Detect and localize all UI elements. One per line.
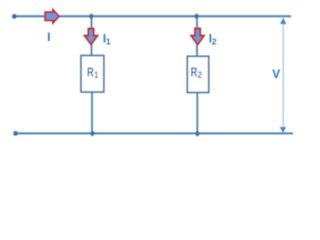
label R2 xyxy=(191,65,202,80)
wire: R1 branch bottom segment xyxy=(91,92,93,133)
label I1 xyxy=(103,34,111,47)
label R1 xyxy=(87,65,98,80)
wire: R2 branch (vertical) xyxy=(196,16,198,56)
svg-text:I: I xyxy=(47,32,50,44)
voltage arrow V (double-headed measure line) xyxy=(280,18,287,133)
current arrow I2 (down, into R2) xyxy=(191,28,204,44)
junction: bottom bus / R2 branch xyxy=(196,131,200,136)
svg-text:V: V xyxy=(272,67,280,81)
wire: top bus xyxy=(14,15,291,17)
wire: R2 branch bottom segment xyxy=(196,93,198,134)
svg-text:R: R xyxy=(87,65,94,80)
node: left top terminal xyxy=(12,14,17,19)
current arrow I (right, on top bus) xyxy=(45,10,59,23)
resistor R1 xyxy=(81,56,104,93)
junction: top bus / R2 branch xyxy=(195,14,199,19)
junction: bottom bus / R1 branch xyxy=(91,131,95,136)
label I2 xyxy=(209,34,217,47)
svg-text:1: 1 xyxy=(106,37,111,47)
junction: top bus / R1 branch xyxy=(89,14,93,19)
resistor R2 xyxy=(187,56,208,92)
current arrow I1 (down, into R1) xyxy=(85,29,98,45)
svg-text:1: 1 xyxy=(94,70,98,80)
svg-text:2: 2 xyxy=(198,70,202,80)
node: left bottom terminal xyxy=(13,131,18,136)
svg-text:R: R xyxy=(191,65,198,80)
wire: R1 branch (vertical) xyxy=(91,16,93,55)
wire: bottom bus xyxy=(15,132,293,134)
svg-text:2: 2 xyxy=(212,37,217,47)
